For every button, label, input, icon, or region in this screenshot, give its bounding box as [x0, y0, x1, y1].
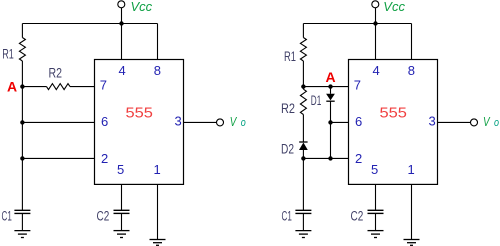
svg-text:555: 555 — [126, 106, 153, 122]
svg-text:C1: C1 — [282, 209, 292, 224]
svg-text:3: 3 — [175, 114, 182, 129]
svg-text:D2: D2 — [281, 142, 294, 157]
svg-text:7: 7 — [354, 78, 361, 93]
svg-text:R1: R1 — [2, 47, 14, 62]
svg-text:R2: R2 — [281, 101, 295, 116]
svg-text:C1: C1 — [2, 209, 12, 224]
svg-text:5: 5 — [371, 162, 378, 177]
svg-text:C2: C2 — [351, 209, 364, 224]
svg-text:1: 1 — [154, 162, 161, 177]
svg-text:1: 1 — [408, 162, 415, 177]
svg-text:C2: C2 — [97, 209, 110, 224]
svg-text:3: 3 — [429, 114, 436, 129]
svg-text:2: 2 — [101, 151, 108, 166]
svg-text:A: A — [7, 79, 17, 95]
svg-text:4: 4 — [373, 63, 380, 78]
svg-text:7: 7 — [100, 78, 107, 93]
svg-text:8: 8 — [408, 63, 415, 78]
svg-text:o: o — [241, 117, 246, 129]
svg-text:Vcc: Vcc — [383, 0, 405, 14]
svg-text:D1: D1 — [311, 93, 322, 108]
svg-text:6: 6 — [101, 114, 108, 129]
svg-text:4: 4 — [119, 63, 126, 78]
svg-text:R1: R1 — [284, 49, 296, 64]
svg-text:R2: R2 — [49, 66, 63, 81]
svg-text:5: 5 — [117, 162, 124, 177]
svg-text:V: V — [230, 114, 238, 129]
svg-text:555: 555 — [380, 106, 407, 122]
svg-text:A: A — [326, 69, 336, 85]
svg-text:2: 2 — [355, 151, 362, 166]
svg-text:6: 6 — [355, 114, 362, 129]
svg-text:V: V — [483, 114, 491, 129]
svg-text:o: o — [494, 117, 499, 129]
svg-text:Vcc: Vcc — [131, 0, 153, 14]
svg-text:8: 8 — [154, 63, 161, 78]
